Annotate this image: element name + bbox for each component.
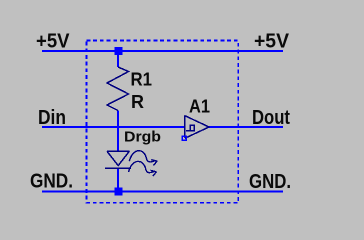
svg-text:+5V: +5V [254, 31, 290, 53]
wire node to resistor top [117, 51, 119, 67]
svg-text:R1: R1 [131, 70, 153, 90]
node junction on GND rail [115, 188, 123, 196]
op-amp pin marker square [182, 136, 186, 140]
wire Din rail [42, 126, 184, 128]
svg-text:Dout: Dout [252, 107, 290, 129]
wire +5V rail [42, 50, 283, 52]
LED emission arrow 1 [129, 151, 157, 166]
resistor R1 zigzag [107, 67, 129, 111]
wire GND rail [42, 191, 283, 193]
svg-text:A1: A1 [189, 96, 210, 116]
svg-text:GND.: GND. [30, 171, 73, 193]
svg-text:Din: Din [38, 107, 66, 129]
svg-text:GND.: GND. [249, 171, 291, 193]
selection box (dashed) [87, 41, 239, 203]
wire LED cathode to GND [117, 169, 119, 192]
svg-text:R: R [131, 92, 144, 112]
LED emission arrow 2 [129, 161, 157, 176]
op-amp buffer A1 [185, 116, 210, 139]
svg-text:+5V: +5V [36, 31, 70, 53]
LED D (diode Drgb) [105, 151, 131, 168]
node junction on +5V rail [115, 47, 123, 55]
svg-text:Drgb: Drgb [124, 129, 161, 146]
wire resistor bottom to LED [117, 111, 119, 152]
wire Dout [209, 126, 283, 128]
